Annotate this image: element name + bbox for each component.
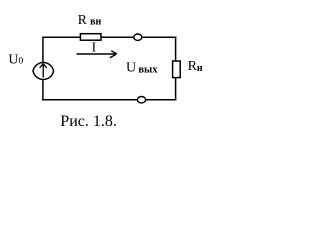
current arrow I [77,51,117,58]
terminal top [134,34,142,40]
wire right upper [175,37,177,62]
terminal bottom [137,97,145,103]
svg-text:н: н [197,63,203,74]
wire terminal-to-corner top [142,36,177,38]
source U0 arrow [40,64,47,78]
svg-text:R: R [78,12,87,27]
svg-text:Рис. 1.8.: Рис. 1.8. [60,113,117,130]
source U0 body [33,63,54,80]
svg-text:I: I [92,39,97,54]
svg-text:U: U [126,61,136,76]
wire bottom left segment [42,99,137,101]
wire right lower [175,78,177,101]
svg-text:U: U [8,52,18,67]
wire bottom right segment [146,99,177,101]
wire top-left segment [43,36,81,38]
resistor Rн body [173,61,181,78]
wire resistor-to-terminal [101,36,134,38]
wire left upper [42,37,44,63]
resistor Rвн body [80,34,101,41]
wire left lower [42,79,44,100]
svg-text:0: 0 [19,57,24,67]
svg-text:вн: вн [90,17,101,28]
svg-text:вых: вых [138,65,158,76]
